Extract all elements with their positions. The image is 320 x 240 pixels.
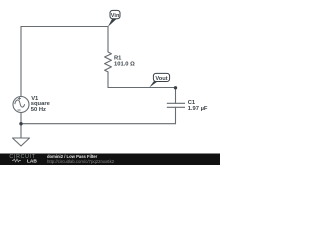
node flag Vin pointer tail — [108, 19, 117, 27]
wire left vertical from top corner down to V1 — [20, 27, 22, 97]
node flag Vin box — [110, 10, 120, 18]
V1 plus sign — [18, 97, 21, 100]
junction dot at C1 top / Vout node — [174, 86, 177, 89]
CircuitLab logo zigzag — [12, 159, 21, 162]
wire V1 bottom lead to ground junction — [20, 113, 22, 124]
voltage source V1 (circle) — [13, 97, 29, 113]
svg-text:Vout: Vout — [155, 76, 167, 82]
node flag Vout box — [153, 73, 169, 81]
svg-text:101.0 Ω: 101.0 Ω — [114, 62, 135, 68]
svg-text:LAB: LAB — [27, 158, 37, 164]
wire C1 bottom lead — [175, 107, 177, 123]
junction dot at V1/ground node — [19, 122, 22, 125]
ground symbol — [13, 138, 30, 146]
wire C1 top lead — [175, 88, 177, 104]
wire node Vout horizontal run — [108, 87, 176, 89]
svg-text:50 Hz: 50 Hz — [31, 107, 46, 113]
V1 sine squiggle — [15, 100, 25, 107]
node flag Vout pointer tail — [149, 81, 158, 87]
svg-text:Vin: Vin — [111, 13, 120, 19]
wire Vin junction down to R1 — [107, 27, 109, 53]
svg-text:1.97 µF: 1.97 µF — [188, 106, 208, 112]
svg-text:http://circuitlab.com/c/7pq22n: http://circuitlab.com/c/7pq22nxx6k2 — [47, 159, 115, 164]
watermark bar — [0, 154, 220, 166]
wire R1 bottom lead — [107, 72, 109, 88]
capacitor C1 plates — [167, 103, 185, 107]
wire top: node Vin horizontal run — [21, 26, 108, 28]
wire bottom return run — [21, 123, 176, 125]
V1 minus sign — [17, 109, 20, 111]
wire ground stem — [20, 124, 22, 138]
resistor R1 zigzag — [105, 52, 112, 72]
